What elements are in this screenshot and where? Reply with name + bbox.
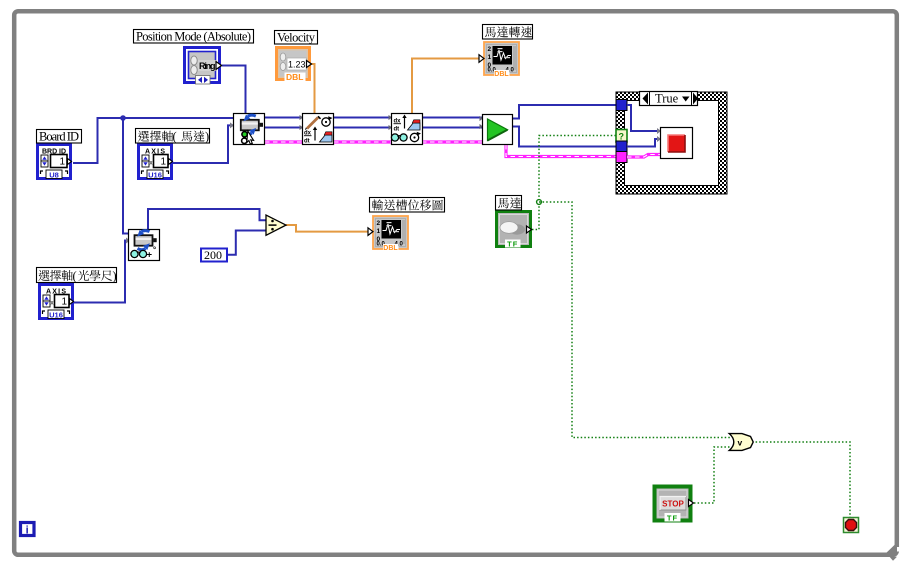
label Position Mode (Absolute): [134, 30, 254, 44]
case tunnel 3 (magenta): [616, 152, 627, 163]
node Read Position VI: [129, 230, 160, 261]
svg-text:DBL: DBL: [383, 245, 398, 252]
wire Board ID to Configure-Motor (U8): [73, 118, 233, 163]
svg-text:1: 1: [488, 54, 492, 61]
svg-text:200: 200: [204, 248, 222, 262]
wire error cluster node4 to case tunnel: [506, 145, 616, 157]
label displacement chart CJK: [370, 198, 445, 213]
input arrowheads: [230, 122, 234, 128]
node Read Velocity VI: [391, 114, 422, 145]
control Axis motor (U16): [139, 145, 173, 180]
node Divide: [266, 215, 286, 235]
case structure (True): [616, 92, 727, 194]
wire Start-Motion to case tunnel 1: [513, 105, 616, 119]
indicator chart motor speed: [479, 42, 519, 78]
wire motor switch branch to OR: [539, 202, 730, 438]
label Axis (motor) CJK: [136, 129, 210, 144]
wire divide to chart displacement: [286, 225, 370, 232]
label motor speed CJK: [483, 25, 533, 40]
node Or gate: [729, 434, 753, 451]
svg-text:1.23: 1.23: [288, 60, 306, 70]
svg-text:TF: TF: [667, 514, 678, 523]
svg-text:DBL: DBL: [494, 71, 509, 78]
stop-motion input arrowheads: [657, 128, 661, 134]
case selector tunnel ?: [616, 130, 627, 143]
wire boolean junction: [537, 200, 542, 205]
wire case inner tunnel2 to Stop-Motion: [627, 139, 660, 147]
wire Read-Position to divide: [148, 209, 266, 229]
wire Board ID branch down to Read-Position: [123, 118, 129, 234]
svg-text:DBL: DBL: [286, 72, 303, 82]
svg-text:1: 1: [377, 228, 381, 235]
iteration terminal i: [21, 523, 35, 537]
svg-text:STOP: STOP: [662, 500, 684, 509]
wire error cluster node2-node3: [334, 140, 391, 143]
svg-text:TF: TF: [507, 240, 518, 249]
wire Velocity to Load-Velocity (DBL): [311, 64, 315, 113]
case tunnel 2 (blue): [616, 141, 627, 152]
svg-text:x: x: [150, 161, 153, 167]
wire axis rail bottom: [265, 127, 482, 129]
svg-text:i: i: [26, 525, 29, 537]
svg-text:?: ?: [619, 132, 625, 142]
control Velocity (DBL): [277, 48, 312, 83]
wire STOP button to OR: [694, 447, 730, 503]
svg-text:Position Mode (Absolute): Position Mode (Absolute): [136, 30, 251, 44]
node Load Velocity VI: [303, 114, 334, 145]
label Axis (encoder) CJK: [37, 268, 117, 284]
svg-text:): ): [205, 130, 209, 144]
svg-text:dt: dt: [394, 127, 400, 133]
svg-text:Velocity: Velocity: [277, 31, 316, 45]
svg-text:+: +: [147, 250, 153, 261]
svg-text:True: True: [655, 92, 679, 106]
case selector label True: [640, 92, 699, 107]
svg-text:Ring: Ring: [199, 61, 216, 71]
label Velocity: [275, 31, 318, 45]
wire case inner error to Stop-Motion: [627, 155, 661, 158]
control motor boolean switch: [497, 212, 532, 249]
svg-text:(: (: [73, 269, 77, 283]
wire junction Board ID branch: [120, 115, 126, 121]
wire motor switch to case selector: [532, 136, 616, 230]
svg-text:2: 2: [377, 220, 381, 227]
svg-text:Board ID: Board ID: [39, 130, 79, 144]
svg-text:(: (: [173, 130, 177, 144]
svg-text:1: 1: [61, 297, 67, 308]
node Start Motion VI: [483, 115, 513, 145]
wire OR to loop condition: [752, 442, 850, 517]
control STOP button: [655, 487, 694, 523]
wire Read-Velocity to chart motor speed: [412, 59, 481, 114]
svg-text:): ): [113, 269, 117, 283]
svg-text:1: 1: [160, 157, 166, 168]
wire Axis(encoder) to Read-Position (U16): [74, 241, 129, 303]
wire error cluster node1-node2: [265, 140, 302, 143]
svg-text:1: 1: [59, 157, 65, 168]
svg-text:U16: U16: [148, 171, 162, 180]
svg-text:U8: U8: [49, 171, 59, 180]
control Board ID (U8): [38, 145, 72, 180]
label motor switch CJK: [496, 196, 522, 211]
control Ring constant (Position Mode): [185, 48, 222, 85]
wire Start-Motion to case tunnel 2: [513, 127, 616, 147]
wire Axis(motor) to Configure-Motor (U16): [173, 125, 233, 163]
case tunnel 1 (blue): [616, 100, 627, 111]
node Configure Motor VI: [234, 114, 265, 145]
node Stop Motion (red square icon): [661, 128, 693, 159]
indicator chart displacement: [368, 216, 408, 252]
wire case inner tunnel1 to Stop-Motion: [627, 105, 660, 131]
wire board rail top: [265, 117, 482, 119]
wire Ring constant to Configure-Motor: [221, 66, 246, 114]
constant 200: [201, 248, 227, 262]
svg-text:2: 2: [488, 46, 492, 53]
svg-text:U16: U16: [49, 311, 63, 320]
svg-text:v: v: [738, 438, 743, 448]
wire error cluster node3-node4: [422, 140, 482, 143]
wire 200 constant to divide: [228, 231, 266, 255]
loop condition terminal: [844, 518, 859, 533]
svg-text:dt: dt: [304, 139, 310, 145]
label Board ID: [37, 130, 82, 144]
control Axis encoder (U16): [40, 285, 74, 320]
svg-text:x: x: [51, 301, 54, 307]
svg-text:°: °: [153, 246, 156, 255]
